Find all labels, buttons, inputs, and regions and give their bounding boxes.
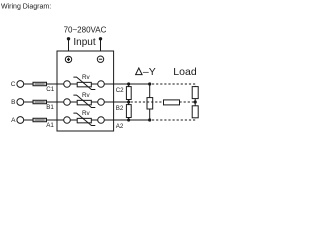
svg-text:Input: Input bbox=[73, 37, 95, 48]
terminal + (input) bbox=[65, 56, 71, 62]
svg-text:B2: B2 bbox=[116, 105, 124, 112]
wire bbox=[24, 83, 33, 85]
svg-text:A2: A2 bbox=[116, 123, 124, 130]
resistor delta B-A bbox=[128, 102, 130, 105]
node junction B-delta bbox=[127, 100, 130, 103]
svg-text:B: B bbox=[11, 99, 15, 106]
terminal B (unit right) bbox=[98, 99, 105, 106]
svg-text:–Y: –Y bbox=[143, 66, 156, 78]
wire B2 out bbox=[104, 101, 128, 103]
node junction C-A bbox=[148, 82, 151, 85]
resistor delta C-A bbox=[147, 98, 153, 109]
svg-text:A1: A1 bbox=[46, 122, 54, 129]
wire star stub top bbox=[194, 99, 196, 106]
svg-text:Wiring Diagram:: Wiring Diagram: bbox=[1, 3, 51, 10]
SSR unit box bbox=[57, 51, 114, 131]
wire dashed C to load bbox=[152, 84, 195, 87]
svg-text:C2: C2 bbox=[116, 87, 124, 94]
wire bbox=[70, 83, 77, 85]
wire bbox=[47, 119, 64, 121]
node: input right dot bbox=[99, 37, 102, 40]
wire bbox=[47, 83, 64, 85]
terminal B (source) bbox=[17, 99, 24, 106]
terminal B (unit left) bbox=[64, 99, 71, 106]
node: input left dot bbox=[67, 37, 70, 40]
wire A2 out bbox=[104, 119, 149, 121]
svg-text:Rv: Rv bbox=[82, 110, 91, 117]
terminal C (source) bbox=[17, 81, 24, 88]
terminal C (unit left) bbox=[64, 81, 71, 88]
wire bbox=[47, 101, 64, 103]
wire dashed B to load bbox=[131, 101, 164, 103]
wire bbox=[91, 101, 97, 103]
wire dashed A to load bbox=[152, 118, 195, 120]
svg-text:B1: B1 bbox=[46, 104, 54, 111]
label delta-Y : triangle bbox=[136, 68, 143, 75]
node junction A-delta bbox=[127, 118, 130, 121]
wire bbox=[70, 101, 77, 103]
varistor Rv (row A) bbox=[77, 118, 91, 123]
wire C-A vertical bbox=[149, 84, 151, 98]
resistor delta C-B bbox=[128, 84, 130, 87]
terminal A (source) bbox=[17, 117, 24, 124]
resistor load A (vertical right) bbox=[192, 106, 198, 118]
wire dashed B resistor to star point bbox=[180, 101, 196, 103]
node star point bbox=[194, 100, 197, 103]
svg-text:A: A bbox=[11, 117, 16, 124]
wire bbox=[91, 119, 97, 121]
resistor load B (horizontal) bbox=[164, 100, 180, 105]
fuse C1 bbox=[33, 82, 47, 86]
resistor load C (vertical right) bbox=[192, 87, 198, 99]
wire: input left lead bbox=[68, 39, 70, 56]
wire bbox=[91, 83, 97, 85]
svg-text:Rv: Rv bbox=[82, 92, 91, 99]
svg-text:C: C bbox=[11, 81, 16, 88]
node junction C-delta bbox=[127, 82, 130, 85]
fuse A1 bbox=[33, 118, 47, 122]
svg-text:70~280VAC: 70~280VAC bbox=[64, 25, 107, 34]
terminal C (unit right) bbox=[98, 81, 105, 88]
varistor Rv (row B) bbox=[77, 100, 91, 105]
wire C2 out bbox=[104, 83, 149, 85]
wire bbox=[24, 101, 33, 103]
wire: input right lead bbox=[100, 39, 102, 56]
wire bbox=[70, 119, 77, 121]
varistor Rv (row C) bbox=[77, 82, 91, 87]
terminal A (unit right) bbox=[98, 117, 105, 124]
svg-text:Rv: Rv bbox=[82, 74, 91, 81]
svg-text:C1: C1 bbox=[46, 86, 54, 93]
fuse B1 bbox=[33, 100, 47, 104]
terminal A (unit left) bbox=[64, 117, 71, 124]
node junction A-CA bbox=[148, 118, 151, 121]
terminal - (input) bbox=[97, 56, 103, 62]
wire bbox=[24, 119, 33, 121]
svg-text:Load: Load bbox=[173, 66, 197, 78]
